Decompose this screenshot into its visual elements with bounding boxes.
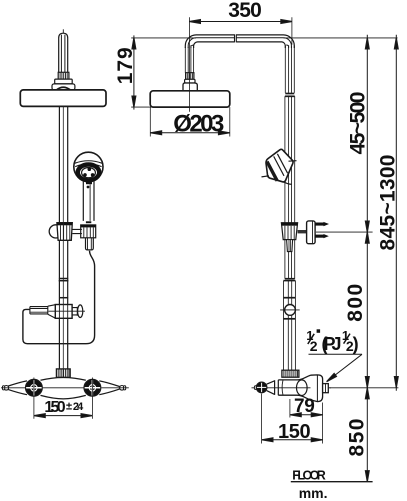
- svg-text:mm.: mm.: [299, 485, 328, 501]
- dim 350 extension lines: [188, 17, 190, 44]
- faucet right wing: [99, 381, 120, 395]
- svg-text:79: 79: [294, 396, 315, 417]
- head arm cap: [183, 83, 197, 90]
- side handle ball: [256, 382, 267, 393]
- wall bell flange: [311, 375, 323, 402]
- svg-text:800: 800: [344, 284, 367, 322]
- dim 79 line: [290, 414, 322, 416]
- faucet front body: [41, 378, 86, 381]
- clamp rod: [72, 229, 82, 233]
- svg-text:150: 150: [44, 399, 65, 416]
- wall nipple: [323, 384, 329, 393]
- svg-text:350: 350: [228, 0, 261, 22]
- dim 845~1300 line: [395, 35, 397, 391]
- ext long line y37.9: [131, 37, 196, 39]
- head arm flange: [185, 79, 195, 83]
- svg-text:179: 179: [114, 47, 137, 84]
- dim 350 line: [189, 21, 292, 23]
- side body: [278, 375, 310, 380]
- slider clamp body: [57, 223, 72, 241]
- hand shower shoulder arcs: [75, 161, 103, 167]
- svg-text:2: 2: [310, 338, 318, 354]
- wire centerline left column: [62, 29, 64, 33]
- column seg3: [284, 281, 296, 371]
- faucet horizontal centerline: [1, 387, 129, 389]
- dim 800 line: [366, 232, 368, 388]
- dim 150±24 extension lines: [33, 378, 35, 419]
- svg-text:150: 150: [278, 421, 311, 443]
- column seg2: [285, 96, 295, 278]
- head arm nut: [186, 73, 194, 80]
- side faucet centerline: [252, 387, 332, 389]
- arm drop pipe to head: [185, 47, 193, 73]
- column tee circle: [280, 309, 300, 311]
- hand shower handle: [83, 181, 94, 221]
- hand shower outer circle: [74, 152, 103, 181]
- left riser nut: [56, 369, 70, 377]
- left pipe joint: [59, 278, 68, 280]
- svg-text:Ø203: Ø203: [173, 110, 224, 137]
- left column centerline: [62, 106, 64, 377]
- column joint1: [285, 93, 294, 95]
- svg-text:45~500: 45~500: [347, 92, 370, 155]
- left finial flange: [55, 79, 72, 84]
- ext line y232: [316, 231, 373, 233]
- shower hose loop: [23, 251, 95, 344]
- right column seg1: [285, 46, 294, 93]
- svg-text:(PJ: (PJ: [322, 334, 342, 354]
- svg-text:24: 24: [73, 401, 84, 413]
- right riser nut: [282, 370, 299, 377]
- left main pipe: [58, 106, 60, 369]
- faucet left wing: [6, 381, 27, 395]
- wall flange: [307, 221, 316, 244]
- leader line ½(PJ½): [309, 353, 363, 355]
- head centerline: [189, 44, 191, 112]
- dim 850 line: [366, 388, 368, 482]
- dim 179 line: [133, 35, 135, 109]
- tee centerline: [49, 310, 86, 312]
- column tick: [284, 297, 296, 299]
- left shower head plate: [20, 90, 106, 107]
- hand shower spray dots: [88, 167, 92, 171]
- svg-text:FLOOR: FLOOR: [292, 469, 326, 483]
- shower arm top pipe (right half): [236, 35, 294, 48]
- column band: [284, 318, 296, 320]
- column joint2: [285, 278, 295, 280]
- ext line y387.6: [330, 387, 399, 389]
- left handle cross: [25, 379, 43, 396]
- handle tick: [86, 221, 91, 223]
- side neck cone: [267, 381, 275, 395]
- dim 150 right extension: [261, 394, 263, 444]
- label half inch PJ: [306, 328, 358, 354]
- dim 45~500 line: [366, 35, 368, 232]
- arm break joint: [235, 34, 237, 42]
- right handle cross: [84, 379, 102, 396]
- dim 150 right line: [262, 439, 322, 441]
- diverter tee body: [55, 305, 72, 319]
- right shower head (side): [150, 91, 230, 107]
- ext line y107: [131, 106, 151, 108]
- clamp tail: [287, 240, 293, 252]
- slider clamp knob: [49, 225, 62, 238]
- svg-text:845~1300: 845~1300: [377, 155, 400, 251]
- dim Ø203 line: [151, 132, 230, 134]
- handle holder: [81, 225, 96, 238]
- left pipe tick: [59, 297, 68, 299]
- wall rod: [298, 230, 307, 233]
- diverter knob: [72, 307, 77, 316]
- floor line: [291, 481, 373, 483]
- svg-text:850: 850: [346, 419, 369, 457]
- shower arm top pipe (left half): [185, 35, 234, 48]
- left finial cap: [52, 84, 75, 90]
- right slider clamp: [281, 223, 297, 240]
- hose outlet arm: [30, 307, 48, 314]
- svg-text:): ): [353, 334, 359, 354]
- hand shower face ring: [78, 165, 99, 181]
- handle tail / hose connector: [86, 238, 94, 250]
- left finial nut: [58, 72, 69, 79]
- wall studs: [315, 222, 329, 238]
- svg-text:±: ±: [66, 401, 72, 413]
- left view top finial pipe: [59, 33, 68, 72]
- dim Ø203 ext lines: [149, 107, 151, 136]
- dim 150±24 line: [34, 415, 92, 417]
- hand shower side view: [262, 149, 297, 184]
- dim 79 extension lines: [289, 399, 291, 418]
